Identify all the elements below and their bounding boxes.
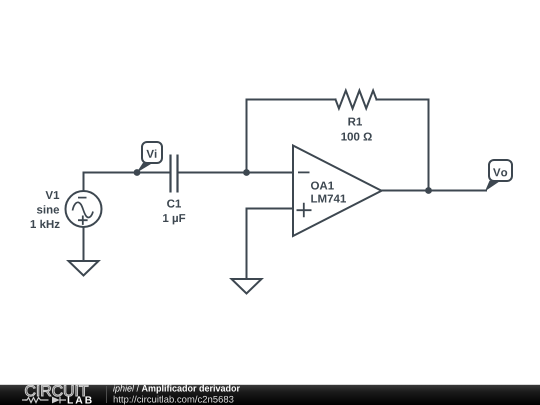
logo waveform resistor xyxy=(25,398,49,403)
node Vi junction dot xyxy=(134,169,141,176)
wire plus input to ground xyxy=(247,209,293,279)
wire feedback right and down to output xyxy=(377,100,429,191)
ground (V1) xyxy=(69,261,99,276)
node junction dot output to feedback xyxy=(425,187,432,194)
flag text Vo xyxy=(493,168,507,176)
op-amp OA1 xyxy=(293,146,382,237)
resistor R1 xyxy=(336,91,377,109)
logo diode xyxy=(52,397,60,404)
label OA1 xyxy=(311,182,334,190)
capacitor C1 xyxy=(171,155,178,193)
wire capacitor to op-amp minus input xyxy=(179,172,293,174)
label LM741 xyxy=(311,195,346,203)
flag text Vi xyxy=(146,150,156,158)
footer bar xyxy=(0,385,540,405)
ground (op-amp plus input) xyxy=(232,279,262,294)
logo CIRCUIT xyxy=(25,385,88,396)
flag Vo box xyxy=(489,160,512,181)
wire V1 top to capacitor xyxy=(84,173,170,192)
flag Vi box xyxy=(142,142,162,163)
footer separator xyxy=(106,386,108,403)
label 1 kHz xyxy=(31,220,60,228)
voltage source V1 xyxy=(66,191,102,227)
wire output xyxy=(382,190,487,192)
label R1 xyxy=(348,118,362,126)
wire V1 bottom to ground xyxy=(83,227,85,260)
footer title xyxy=(113,385,240,394)
logo LAB xyxy=(68,396,92,403)
wire feedback up from minus node xyxy=(247,100,336,173)
flag Vi pointer xyxy=(137,163,154,173)
footer url xyxy=(114,396,234,405)
flag Vo pointer xyxy=(485,181,501,192)
label 100 Ohm xyxy=(341,133,371,141)
label 1 uF xyxy=(163,214,185,224)
label sine xyxy=(37,205,59,213)
label C1 xyxy=(167,200,181,208)
label V1 xyxy=(46,191,60,199)
node junction dot feedback to minus input xyxy=(243,169,250,176)
